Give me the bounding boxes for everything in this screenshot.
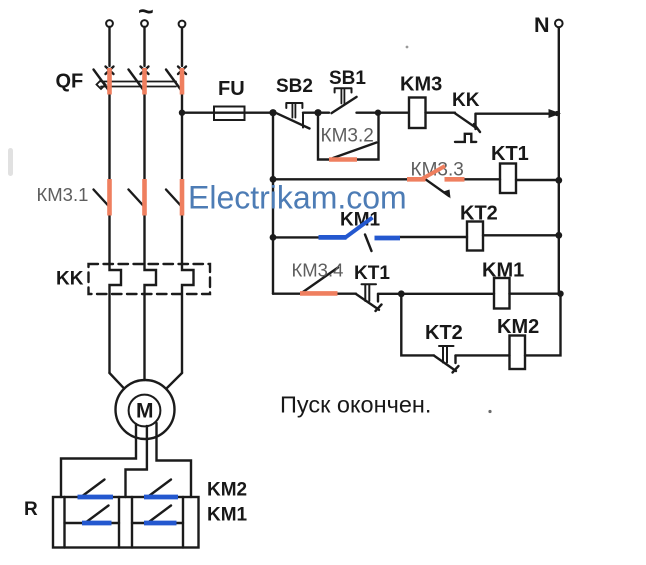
svg-text:КМ3.1: КМ3.1 [37,184,89,205]
svg-text:KM1: KM1 [482,260,524,282]
svg-text:SB1: SB1 [329,68,366,89]
svg-text:QF: QF [56,71,84,93]
svg-text:KK: KK [452,90,480,111]
svg-text:~: ~ [138,0,154,27]
svg-text:KT2: KT2 [425,322,463,344]
svg-text:KK: KK [56,269,84,290]
svg-text:Electrikam.com: Electrikam.com [188,180,407,216]
svg-text:M: M [136,400,154,423]
svg-text:KM3: KM3 [400,74,442,96]
svg-text:Пуск окончен.: Пуск окончен. [280,392,431,418]
svg-text:KM2: KM2 [497,316,539,338]
svg-text:КМ3.2: КМ3.2 [321,126,374,147]
svg-text:N: N [534,13,550,37]
svg-text:KM2: KM2 [207,480,247,501]
svg-text:КМ3.4: КМ3.4 [292,260,344,281]
svg-text:R: R [24,499,38,520]
svg-text:KT1: KT1 [491,143,529,165]
svg-text:KT2: KT2 [460,203,498,225]
svg-text:KM1: KM1 [207,505,248,526]
svg-text:KT1: KT1 [354,263,390,284]
svg-text:SB2: SB2 [276,76,313,97]
svg-text:FU: FU [218,78,245,100]
